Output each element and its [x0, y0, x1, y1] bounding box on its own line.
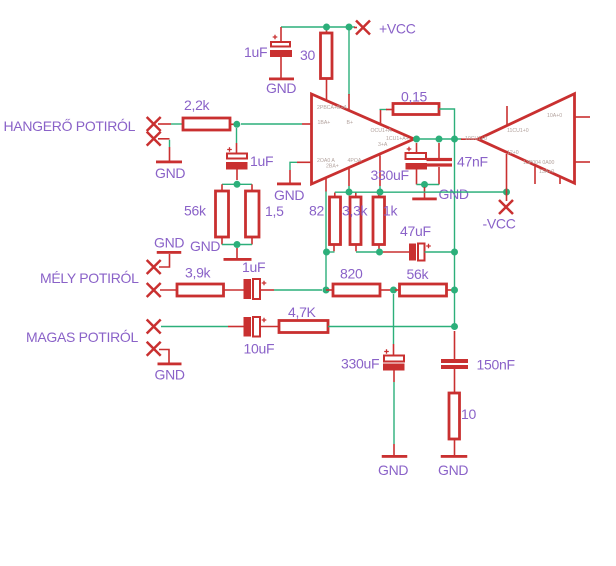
svg-text:11CU1+0: 11CU1+0: [507, 128, 529, 134]
wire from X to R 2,2k: [158, 123, 171, 125]
terminal X bass input: [147, 283, 161, 297]
U2 top stub pin: [506, 106, 508, 125]
wire -VCC rail: [335, 191, 507, 193]
pin U1 bottom to feedback: [325, 178, 327, 192]
U1 gnd pin wire: [297, 161, 312, 163]
svg-text:1uF: 1uF: [244, 44, 267, 60]
lead C7 to R 10: [454, 369, 456, 393]
lead C5 to R 4,7K: [260, 326, 279, 328]
U2 output pin right lower: [575, 161, 591, 163]
node under C2: [234, 181, 241, 188]
wire X to ground symbol: [159, 350, 169, 363]
svg-text:+VCC: +VCC: [379, 21, 416, 37]
wire X up to ground symbol: [159, 254, 170, 267]
wire C3 to node: [260, 289, 274, 291]
capacitor C7 150nF plates: [441, 359, 468, 363]
node at U1 output: [413, 136, 420, 143]
terminal X to ground upper: [147, 260, 161, 274]
node -VCC at 380: [377, 189, 384, 196]
ground symbol under C6: [382, 455, 408, 458]
resistor 56k-2 body: [400, 284, 447, 296]
capacitor C6 330uF plates: [384, 356, 404, 362]
node between 820 and 56k: [390, 287, 397, 294]
capacitor C2 1uF plates: [227, 154, 247, 159]
svg-text:1,5: 1,5: [265, 203, 284, 219]
resistor 1k top lead: [378, 193, 380, 198]
node at cap bottoms: [421, 181, 428, 188]
node on +VCC rail at R-30: [323, 24, 330, 31]
lead 56k to output net: [447, 289, 453, 291]
svg-text:GND: GND: [266, 80, 296, 96]
svg-text:1k: 1k: [383, 203, 398, 219]
resistor 1k bottom lead: [378, 245, 380, 252]
capacitor C9 lower lead: [438, 167, 440, 185]
resistor R-30 top lead: [326, 27, 328, 33]
wire +VCC down to op-amp U1: [348, 27, 350, 95]
svg-text:47uF: 47uF: [400, 223, 431, 239]
resistor 0,15 body: [393, 104, 439, 115]
resistor 0,15 right lead: [439, 109, 455, 139]
svg-text:30: 30: [300, 47, 315, 63]
wire X to R 3,9k: [160, 289, 177, 291]
wire node down to C6 330uF: [393, 294, 395, 344]
wire node down to C2: [236, 128, 238, 143]
capacitor C1 lower lead: [280, 57, 282, 78]
resistor 3,3k top bend: [355, 193, 357, 198]
svg-text:10uF: 10uF: [244, 341, 275, 357]
U2 output pin right upper: [575, 116, 591, 118]
svg-text:10CU1+0: 10CU1+0: [465, 136, 487, 142]
resistor 2,2k body: [183, 118, 230, 130]
terminal X volume input: [147, 117, 161, 131]
wire joining cap bottoms: [417, 184, 440, 186]
capacitor C6 plus mark: [384, 349, 389, 354]
capacitor C2 lower lead: [236, 170, 238, 181]
resistor 3,3k body: [350, 197, 361, 245]
svg-text:GND: GND: [378, 462, 408, 478]
ground under C1: [269, 78, 294, 81]
wires to resistor pair tops: [222, 183, 252, 185]
svg-text:GND: GND: [154, 235, 184, 251]
capacitor C8 plus mark: [407, 147, 412, 152]
svg-text:13P004 0A00: 13P004 0A00: [523, 160, 555, 166]
node on +VCC rail: [346, 24, 353, 31]
svg-text:2,2k: 2,2k: [184, 97, 211, 113]
svg-text:1CU1+A+: 1CU1+A+: [386, 136, 409, 142]
svg-text:150nF: 150nF: [477, 357, 515, 373]
red stub to +VCC cross: [354, 27, 357, 29]
node on output net at C4: [451, 249, 458, 256]
svg-text:GND: GND: [155, 165, 185, 181]
svg-text:3,9k: 3,9k: [185, 265, 212, 281]
svg-text:10A+0: 10A+0: [547, 113, 562, 119]
lead node to R 56k: [395, 289, 400, 291]
+VCC terminal X: [356, 21, 370, 35]
node at resistor bottoms: [376, 249, 383, 256]
svg-text:4,7K: 4,7K: [288, 304, 317, 320]
wire feedback vertical: [325, 192, 327, 291]
svg-text:13A+0: 13A+0: [539, 169, 554, 175]
svg-text:330uF: 330uF: [341, 356, 379, 372]
lead node to C4 47uF: [380, 251, 410, 253]
wire X to C5: [161, 326, 228, 328]
capacitor C9 47nF plates: [427, 158, 453, 161]
ground symbol: [156, 161, 182, 164]
lead 820 to node: [380, 289, 392, 291]
svg-text:-VCC: -VCC: [483, 216, 516, 232]
capacitor C4 plus mark: [426, 244, 431, 249]
lead to ground symbol: [424, 187, 426, 198]
lead node to R 820: [326, 289, 333, 291]
capacitor C8 330uF plates: [406, 153, 427, 159]
svg-text:1BA+: 1BA+: [318, 120, 331, 126]
op-amp U2 body: [478, 94, 575, 184]
node 82 bottom: [323, 249, 330, 256]
resistor 0,15 left lead: [380, 109, 388, 111]
node -VCC at 349: [346, 189, 353, 196]
resistor R-30 body: [321, 33, 333, 79]
capacitor C9 47nF top lead: [438, 143, 440, 158]
terminal X treble input: [147, 320, 161, 334]
pin lead into U1 top: [348, 94, 350, 111]
ground symbol at U1: [277, 183, 301, 186]
wire X to ground symbol: [158, 138, 170, 140]
ground symbol: [158, 363, 182, 366]
capacitor C3 1uF plates: [244, 279, 252, 299]
wire output column down: [454, 139, 456, 327]
svg-text:GND: GND: [438, 462, 468, 478]
svg-text:1uF: 1uF: [242, 259, 265, 275]
ground symbol under pair: [224, 258, 252, 261]
svg-text:GND: GND: [439, 186, 469, 202]
U2 bottom stub pin 2: [559, 178, 561, 185]
wire C6 to ground: [393, 371, 395, 383]
resistor R-30 bottom lead to op-amp: [326, 79, 328, 103]
node under resistor pair: [234, 241, 241, 248]
svg-text:MÉLY POTIRÓL: MÉLY POTIRÓL: [40, 270, 139, 286]
lead 3,9k to C3: [224, 289, 244, 291]
svg-text:1uF: 1uF: [250, 153, 273, 169]
node on output net at 4,7K: [451, 323, 458, 330]
resistor 1,5 body: [246, 191, 260, 237]
node at 47nF top: [436, 136, 443, 143]
U1 bottom pin to dot 380: [379, 156, 381, 187]
wires from resistor pair bottoms: [221, 237, 223, 245]
svg-text:MAGAS POTIRÓL: MAGAS POTIRÓL: [26, 329, 139, 345]
ground symbol mid: [412, 198, 437, 201]
terminal X to ground: [147, 132, 161, 146]
resistor 3,9k body: [177, 284, 224, 296]
op-amp U1 body: [312, 94, 415, 184]
terminal X to ground lower: [147, 342, 161, 356]
U2 -VCC pin: [506, 154, 508, 201]
resistor 56k body: [216, 191, 229, 237]
node -VCC right: [503, 189, 510, 196]
capacitor C1 1uF plates: [271, 42, 290, 47]
svg-text:10: 10: [461, 406, 476, 422]
U2 bottom stub pin 1: [534, 167, 536, 185]
wire U1 output to U2: [417, 138, 462, 140]
resistor 82 bottom bend: [333, 245, 335, 252]
capacitor C8 lower lead: [416, 169, 418, 185]
resistor 3,3k bottom bend: [355, 245, 357, 252]
svg-text:820: 820: [340, 266, 363, 282]
svg-text:GND: GND: [155, 367, 185, 383]
svg-text:2PBCA+B+A: 2PBCA+B+A: [317, 105, 348, 111]
node on output net at 56k: [451, 287, 458, 294]
svg-text:4POA: 4POA: [348, 158, 362, 164]
capacitor C1 plus mark: [273, 35, 278, 40]
svg-text:3+A: 3+A: [378, 142, 388, 148]
resistor 10 body: [449, 393, 460, 439]
svg-text:82: 82: [309, 203, 324, 219]
svg-text:56k: 56k: [184, 203, 207, 219]
svg-text:GND: GND: [274, 187, 304, 203]
-VCC terminal X: [499, 200, 513, 214]
wire 4,7K to output net: [328, 326, 455, 328]
svg-text:HANGERŐ POTIRÓL: HANGERŐ POTIRÓL: [4, 118, 136, 134]
capacitor C3 plus mark: [262, 281, 267, 286]
node at feedback net: [323, 287, 330, 294]
svg-text:3,3k: 3,3k: [342, 203, 369, 219]
svg-text:0,15: 0,15: [401, 89, 428, 105]
wire C4 to output net: [425, 251, 455, 253]
U1 bottom pin to dot 349: [348, 168, 350, 186]
svg-text:OCU1+A: OCU1+A: [371, 128, 392, 134]
lead R 10 to ground: [454, 439, 456, 455]
svg-text:56k: 56k: [407, 266, 430, 282]
capacitor C5 10uF plates: [244, 317, 252, 337]
resistor 4,7K body: [279, 321, 328, 333]
ground symbol above X: [157, 251, 182, 254]
svg-text:12+0: 12+0: [507, 150, 519, 156]
svg-text:2BA+: 2BA+: [326, 164, 339, 170]
capacitor C4 47uF plates: [409, 244, 416, 261]
capacitor C5 plus mark: [262, 318, 267, 323]
capacitor C1 1uF top lead: [280, 27, 282, 42]
svg-text:330uF: 330uF: [371, 167, 409, 183]
svg-text:B+: B+: [347, 120, 354, 126]
svg-text:47nF: 47nF: [457, 154, 488, 170]
wire 2,2k to U1 input pin: [241, 123, 302, 125]
lead 2,2k to node: [230, 123, 234, 125]
wire +VCC rail: [281, 26, 355, 28]
lead to ground: [236, 248, 238, 258]
ground symbol under R 10: [441, 455, 468, 458]
node at output column: [451, 136, 458, 143]
resistor 82 top bend: [334, 193, 336, 198]
capacitor C2 plus mark: [227, 147, 232, 152]
node after 2,2k: [233, 121, 240, 128]
svg-text:GND: GND: [190, 238, 220, 254]
resistor 820 body: [333, 284, 380, 296]
lead output net to C7 150nF: [454, 331, 456, 359]
resistor 1k body: [373, 197, 385, 245]
capacitor C8 330uF top lead: [416, 143, 418, 154]
resistor 82 body: [330, 197, 341, 245]
